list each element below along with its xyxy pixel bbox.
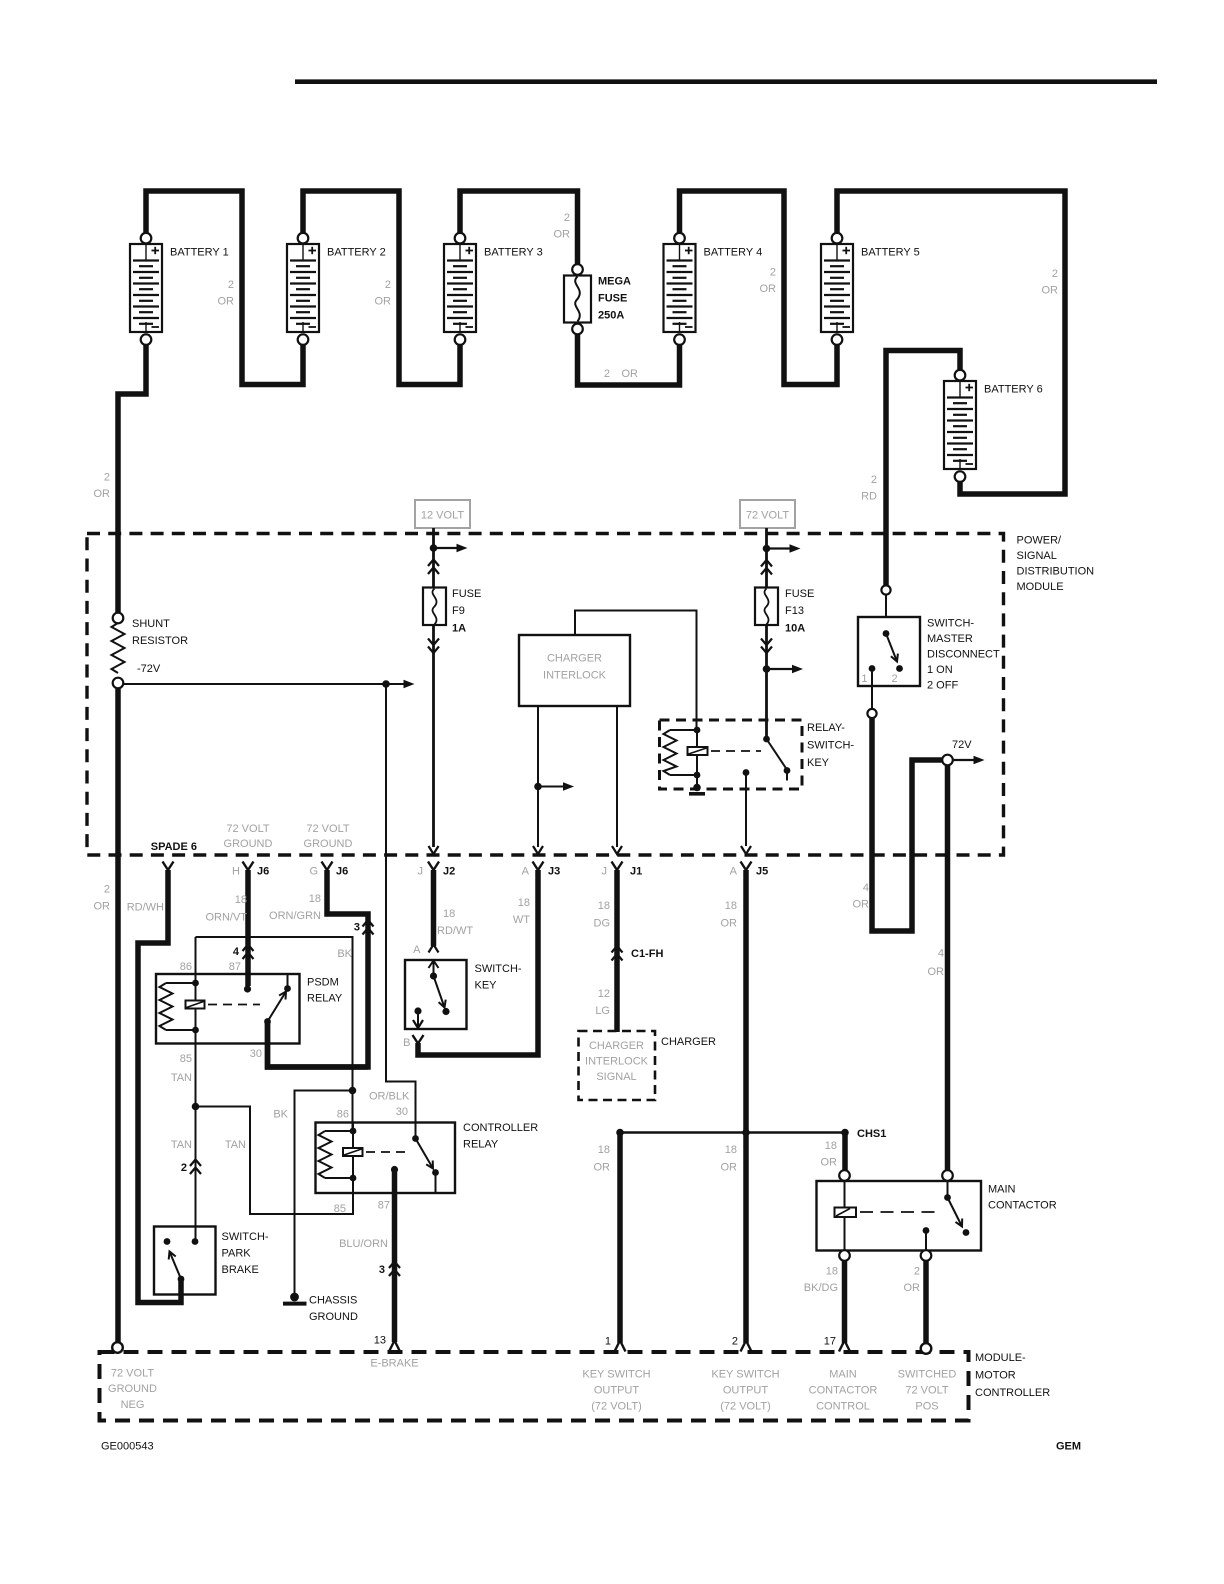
wire label 2 OR (72 volt ground neg)	[94, 884, 111, 913]
svg-text:2: 2	[1052, 268, 1058, 280]
svg-text:SWITCH-: SWITCH-	[927, 618, 974, 630]
svg-text:NEG: NEG	[121, 1399, 145, 1411]
wire shunt to controller relay 30	[386, 684, 416, 1136]
svg-text:18: 18	[725, 900, 737, 912]
svg-text:RELAY: RELAY	[307, 993, 343, 1005]
wire battery2 + to battery3 -	[303, 191, 460, 385]
svg-text:GROUND: GROUND	[309, 1311, 358, 1323]
junction dot 12 volt with arrow	[430, 544, 468, 553]
svg-text:TAN: TAN	[171, 1072, 192, 1084]
wire label 18 OR (output 1)	[594, 1144, 611, 1174]
wire label 2 OR (fuse-B4)	[604, 368, 638, 380]
svg-text:BLU/ORN: BLU/ORN	[339, 1238, 388, 1250]
relay-switch-key dashed box	[660, 720, 803, 789]
svg-text:86: 86	[337, 1109, 349, 1121]
svg-text:CHARGER: CHARGER	[547, 653, 602, 665]
wire switched 72 volt pos 2 OR	[923, 1261, 929, 1345]
svg-text:RD/WH: RD/WH	[127, 902, 164, 914]
charger interlock box	[519, 635, 630, 706]
wire charger interlock to connector J3	[537, 706, 539, 847]
svg-text:GROUND: GROUND	[224, 838, 273, 850]
wire PSDM relay 85 TAN	[195, 1044, 197, 1240]
svg-text:CHASSIS: CHASSIS	[309, 1295, 357, 1307]
figure number GE000543	[101, 1441, 154, 1453]
pin 72 volt ground neg	[108, 1342, 157, 1411]
svg-text:4: 4	[938, 948, 944, 960]
svg-text:OR: OR	[94, 488, 111, 500]
svg-text:ORN/GRN: ORN/GRN	[269, 910, 321, 922]
svg-text:85: 85	[180, 1053, 192, 1065]
svg-text:TAN: TAN	[171, 1139, 192, 1151]
svg-text:12 VOLT: 12 VOLT	[421, 510, 464, 522]
main contactor terminals	[839, 1170, 953, 1261]
svg-text:J: J	[418, 866, 424, 878]
switch-key input arrow	[429, 961, 439, 977]
main contactor output	[923, 1227, 930, 1251]
svg-text:POS: POS	[915, 1401, 938, 1413]
wire label 18 OR (output 2)	[721, 1144, 738, 1174]
PSDM relay switch contact (30 to 87)	[264, 974, 291, 1025]
svg-text:2: 2	[871, 474, 877, 486]
label CHARGER	[661, 1036, 716, 1048]
wire battery3 + to mega fuse	[460, 191, 578, 266]
junction dot key switch output 1	[616, 1129, 624, 1137]
svg-text:OR: OR	[375, 296, 392, 308]
svg-text:MASTER: MASTER	[927, 633, 973, 645]
svg-text:OR: OR	[821, 1157, 838, 1169]
relay-switch-key coil	[664, 727, 708, 788]
arrow into connector J1	[612, 846, 622, 854]
svg-text:MAIN: MAIN	[988, 1184, 1016, 1196]
wire label 2 RD (B6 to disconnect)	[861, 474, 877, 503]
relay-switch-key ground	[689, 784, 705, 794]
svg-text:F9: F9	[452, 605, 465, 617]
svg-text:B: B	[403, 1037, 410, 1049]
wire J6-H 18 ORN/VT to PSDM relay 87	[245, 870, 251, 986]
svg-text:30: 30	[250, 1048, 262, 1060]
svg-text:INTERLOCK: INTERLOCK	[585, 1056, 649, 1068]
wire key switch output junction row	[620, 1131, 845, 1134]
wire label BK (ORN/GRN splice)	[337, 948, 352, 960]
wire label 18 DG	[594, 900, 611, 930]
pin 13 e-brake	[370, 1335, 418, 1370]
chassis ground (switch-park brake area)	[293, 1296, 295, 1298]
svg-text:4: 4	[863, 882, 869, 894]
wire label 12 LG	[595, 988, 610, 1017]
svg-text:2: 2	[104, 472, 110, 484]
svg-text:2: 2	[892, 673, 898, 685]
splice 3 on BLU/ORN wire	[379, 1262, 400, 1277]
svg-text:18: 18	[443, 908, 455, 920]
wire disconnect pin1 to terminal	[867, 669, 876, 719]
svg-text:3: 3	[354, 922, 360, 934]
svg-text:E-BRAKE: E-BRAKE	[370, 1358, 418, 1370]
main contactor box	[817, 1181, 1057, 1251]
junction OR/BLK	[349, 1087, 410, 1103]
svg-text:LG: LG	[595, 1005, 610, 1017]
switch-key A chevron	[413, 944, 438, 956]
splice 3 on ORN/GRN wire	[354, 920, 374, 935]
svg-text:J6: J6	[257, 866, 269, 878]
svg-text:18: 18	[598, 1144, 610, 1156]
svg-text:SWITCHED: SWITCHED	[898, 1369, 957, 1381]
junction dot key switch output 2	[742, 1129, 750, 1137]
svg-text:MODULE-: MODULE-	[975, 1352, 1026, 1364]
arrow into connector J3	[533, 846, 543, 854]
svg-text:1: 1	[861, 673, 867, 685]
svg-text:17: 17	[824, 1336, 836, 1348]
svg-text:PSDM: PSDM	[307, 977, 339, 989]
svg-text:18: 18	[518, 897, 530, 909]
wire label 18 RD/WT	[437, 908, 473, 937]
wire label TAN TAN	[171, 1139, 246, 1151]
connector J3 pin A	[522, 862, 561, 878]
svg-text:1 ON: 1 ON	[927, 664, 953, 676]
svg-text:A: A	[413, 944, 421, 956]
svg-text:OUTPUT: OUTPUT	[723, 1385, 769, 1397]
wire label 18 BK/DG	[804, 1266, 838, 1295]
svg-text:J: J	[602, 866, 608, 878]
wire battery5 + to battery6 -	[837, 191, 1065, 494]
svg-text:BATTERY 3: BATTERY 3	[484, 247, 543, 259]
svg-text:CONTACTOR: CONTACTOR	[988, 1200, 1057, 1212]
svg-text:BATTERY 6: BATTERY 6	[984, 384, 1043, 396]
switch-park brake box	[154, 1227, 269, 1295]
PSDM relay pin 87 dot	[244, 985, 251, 992]
wire mega fuse to battery4 -	[578, 332, 680, 385]
fuse F13 10A	[755, 588, 814, 635]
splice chevrons below fuse F13	[761, 639, 772, 654]
junction dot 72 volt with arrow	[763, 544, 801, 553]
wire label 2 OR (B3-fuse)	[554, 212, 571, 241]
wire J5 18 OR to key switch output 2	[743, 870, 749, 1343]
connector SPADE 6	[151, 841, 197, 870]
svg-text:OR: OR	[594, 1162, 611, 1174]
pin switched 72 volt pos	[898, 1343, 957, 1412]
svg-text:F13: F13	[785, 605, 804, 617]
svg-text:RD: RD	[861, 491, 877, 503]
svg-text:OR/BLK: OR/BLK	[369, 1091, 410, 1103]
svg-text:3: 3	[379, 1264, 385, 1276]
controller relay mechanical link	[366, 1151, 409, 1153]
arrow into connector J2	[429, 846, 439, 854]
connector J6 pin H	[224, 823, 273, 878]
svg-text:GROUND: GROUND	[304, 838, 353, 850]
svg-text:OR: OR	[721, 918, 738, 930]
svg-text:18: 18	[309, 893, 321, 905]
node 12 VOLT	[415, 500, 470, 528]
svg-text:INTERLOCK: INTERLOCK	[543, 670, 607, 682]
main contactor switch contact	[944, 1181, 969, 1236]
module-motor controller dashed box	[100, 1352, 969, 1421]
fuse F9 1A	[423, 588, 481, 635]
wire label 4 OR (contactor feed)	[928, 948, 945, 979]
svg-text:SIGNAL: SIGNAL	[596, 1071, 636, 1083]
switch-key box	[405, 960, 522, 1029]
svg-text:OR: OR	[554, 229, 571, 241]
svg-text:SHUNT: SHUNT	[132, 618, 170, 630]
svg-text:KEY: KEY	[807, 757, 830, 769]
svg-text:OR: OR	[218, 296, 235, 308]
connector J2 pin J	[418, 862, 456, 878]
controller relay coil	[319, 1123, 363, 1194]
wire key switch output 1 (18 OR)	[617, 1133, 623, 1344]
svg-text:SWITCH-: SWITCH-	[222, 1231, 269, 1243]
svg-text:OR: OR	[1042, 285, 1059, 297]
svg-text:FUSE: FUSE	[598, 293, 627, 305]
PSDM relay BK loop to OR/BLK junction	[196, 937, 353, 1089]
svg-text:OR: OR	[721, 1162, 738, 1174]
svg-text:250A: 250A	[598, 310, 624, 322]
svg-text:MODULE: MODULE	[1017, 581, 1064, 593]
node CHS1	[841, 1128, 886, 1140]
svg-text:A: A	[730, 866, 738, 878]
wire charger interlock to connector J1	[616, 706, 618, 847]
svg-text:J5: J5	[756, 866, 768, 878]
wire label TAN (85)	[171, 1072, 192, 1084]
svg-text:WT: WT	[513, 914, 530, 926]
svg-text:J1: J1	[630, 866, 642, 878]
svg-text:72V: 72V	[952, 739, 972, 751]
power/signal distribution module dashed box	[87, 534, 1004, 856]
svg-text:J6: J6	[336, 866, 348, 878]
svg-text:OR: OR	[853, 899, 870, 911]
wire label 18 OR (J5)	[721, 900, 738, 930]
svg-text:2: 2	[732, 1336, 738, 1348]
svg-text:CONTROL: CONTROL	[816, 1401, 870, 1413]
splice 4 on ORN/VT wire	[233, 945, 254, 960]
svg-text:MOTOR: MOTOR	[975, 1370, 1016, 1382]
svg-text:CHARGER: CHARGER	[589, 1040, 644, 1052]
svg-text:BK: BK	[337, 948, 352, 960]
svg-text:72 VOLT: 72 VOLT	[306, 823, 349, 835]
svg-text:2: 2	[770, 267, 776, 279]
svg-text:BK: BK	[273, 1109, 288, 1121]
svg-text:86: 86	[180, 961, 192, 973]
splice C1-FH	[612, 946, 664, 961]
svg-text:4: 4	[233, 946, 240, 958]
controller relay box	[316, 1122, 539, 1193]
svg-text:-72V: -72V	[137, 663, 161, 675]
wire charger interlock to relay-switch-key coil	[575, 611, 697, 729]
svg-text:CHARGER: CHARGER	[661, 1036, 716, 1048]
label RELAY-SWITCH-KEY	[807, 722, 854, 769]
svg-text:1: 1	[605, 1336, 611, 1348]
PSDM relay mechanical link	[208, 1004, 260, 1006]
svg-text:2: 2	[104, 884, 110, 896]
svg-text:BATTERY 4: BATTERY 4	[704, 247, 763, 259]
connector J5 pin A	[730, 862, 769, 878]
node 72V	[942, 739, 984, 765]
svg-text:OR: OR	[904, 1282, 921, 1294]
wire J2 18 RD/WT to switch-key A	[431, 870, 437, 946]
wire TAN junction to controller relay 85	[196, 1107, 354, 1215]
svg-text:KEY: KEY	[475, 980, 498, 992]
svg-text:BK/DG: BK/DG	[804, 1282, 838, 1294]
svg-text:RELAY-: RELAY-	[807, 722, 845, 734]
svg-text:18: 18	[598, 900, 610, 912]
wire label 2 OR (B1 neg)	[94, 472, 111, 501]
svg-text:CONTROLLER: CONTROLLER	[463, 1122, 538, 1134]
battery B2	[287, 233, 386, 345]
splice chevrons above fuse F9	[428, 560, 439, 575]
charger interlock signal dashed box	[579, 1031, 656, 1100]
svg-text:RD/WT: RD/WT	[437, 925, 473, 937]
svg-text:SIGNAL: SIGNAL	[1017, 550, 1057, 562]
svg-text:OUTPUT: OUTPUT	[594, 1385, 640, 1397]
svg-text:KEY SWITCH: KEY SWITCH	[582, 1369, 650, 1381]
svg-text:85: 85	[334, 1203, 346, 1215]
svg-text:2: 2	[564, 212, 570, 224]
svg-text:30: 30	[396, 1106, 408, 1118]
label MODULE-MOTOR CONTROLLER	[975, 1352, 1050, 1399]
wire label 18 OR (CHS1)	[821, 1140, 838, 1169]
wire controller relay 87 BLU/ORN to e-brake	[392, 1170, 398, 1343]
mega fuse 250A	[564, 264, 631, 334]
svg-text:87: 87	[378, 1200, 390, 1212]
page top rule	[295, 79, 1157, 84]
svg-text:GE000543: GE000543	[101, 1441, 154, 1453]
wire J6-G 18 ORN/GRN to PSDM relay 30	[268, 870, 369, 1067]
svg-text:CONTACTOR: CONTACTOR	[809, 1385, 878, 1397]
label POWER/SIGNAL DISTRIBUTION MODULE	[1017, 535, 1095, 594]
svg-text:TAN: TAN	[225, 1139, 246, 1151]
wire main contactor control 18 BK/DG	[842, 1261, 848, 1344]
svg-text:2: 2	[228, 279, 234, 291]
svg-text:POWER/: POWER/	[1017, 535, 1063, 547]
svg-text:ORN/VT: ORN/VT	[205, 912, 247, 924]
wire battery1 - to shunt resistor (2 OR)	[118, 345, 146, 613]
wire label 2 OR (B1-B2)	[218, 279, 235, 308]
svg-text:BATTERY 2: BATTERY 2	[327, 247, 386, 259]
switch-master disconnect box	[858, 585, 1000, 691]
wire PSDM relay 30 thick link	[268, 1022, 369, 1068]
relay-switch-key mechanical link	[711, 750, 761, 752]
svg-text:72 VOLT: 72 VOLT	[111, 1368, 154, 1380]
shunt resistor -72V	[112, 613, 189, 689]
wire battery4 + to battery5 -	[680, 191, 838, 385]
connector J6 pin G	[304, 823, 353, 878]
wire SPADE6 RD/WH to park brake switch	[138, 870, 181, 1303]
controller relay pin 87 dot	[391, 1166, 398, 1173]
wire label 18 WT	[513, 897, 530, 926]
svg-text:DISCONNECT: DISCONNECT	[927, 649, 1000, 661]
label GEM	[1056, 1441, 1081, 1453]
svg-text:1A: 1A	[452, 623, 466, 635]
PSDM relay pin labels	[180, 961, 262, 1065]
svg-text:GROUND: GROUND	[108, 1383, 157, 1395]
wire label 2 OR (switched 72V)	[904, 1266, 921, 1295]
battery B4	[664, 233, 763, 345]
svg-text:FUSE: FUSE	[785, 588, 814, 600]
pin 1 key switch output	[582, 1336, 650, 1413]
node 72 VOLT	[740, 500, 795, 528]
svg-text:SPADE 6: SPADE 6	[151, 841, 197, 853]
wire label 2 OR (B2-B3)	[375, 279, 392, 308]
svg-text:18: 18	[825, 1140, 837, 1152]
svg-text:A: A	[522, 866, 530, 878]
wire J1 18 DG to charger interlock signal	[614, 870, 620, 1032]
svg-text:BRAKE: BRAKE	[222, 1264, 259, 1276]
svg-text:72 VOLT: 72 VOLT	[226, 823, 269, 835]
svg-text:OR: OR	[928, 966, 945, 978]
wire OR/BLK junction to controller relay 86	[352, 1091, 354, 1131]
svg-text:CONTROLLER: CONTROLLER	[975, 1387, 1050, 1399]
wire label 2 OR (B4-B5)	[760, 267, 777, 296]
svg-text:OR: OR	[760, 283, 777, 295]
svg-text:CHS1: CHS1	[857, 1128, 886, 1140]
svg-text:72 VOLT: 72 VOLT	[905, 1385, 948, 1397]
wire BK to chassis ground	[295, 1091, 353, 1294]
svg-text:BATTERY 1: BATTERY 1	[170, 247, 229, 259]
svg-text:(72 VOLT): (72 VOLT)	[720, 1401, 771, 1413]
wire label 2 OR (B5-B6)	[1042, 268, 1059, 297]
svg-text:H: H	[232, 866, 240, 878]
battery B5	[821, 233, 920, 345]
svg-text:2: 2	[181, 1162, 187, 1174]
svg-text:2: 2	[604, 368, 610, 380]
wire 12 volt to fuse F9	[432, 528, 435, 847]
svg-text:SWITCH-: SWITCH-	[475, 963, 522, 975]
svg-text:C1-FH: C1-FH	[631, 948, 663, 960]
main contactor coil	[835, 1181, 857, 1251]
junction dot TAN	[192, 1103, 200, 1111]
svg-text:J2: J2	[443, 866, 455, 878]
splice chevrons below fuse F9	[428, 639, 439, 654]
chassis ground (BK wire)	[283, 1293, 358, 1323]
svg-text:OR: OR	[94, 901, 111, 913]
svg-text:18: 18	[235, 894, 247, 906]
svg-text:18: 18	[725, 1144, 737, 1156]
svg-text:18: 18	[826, 1266, 838, 1278]
svg-text:13: 13	[374, 1335, 386, 1347]
switch-key B connector	[403, 1035, 423, 1049]
wire disconnect to 72V node (4 OR)	[872, 718, 942, 931]
junction dot with arrow (J3 branch)	[534, 782, 574, 791]
wire relay-switch-key to connector J5	[741, 769, 751, 854]
wire label 4 OR (disconnect)	[853, 882, 870, 911]
PSDM relay coil	[160, 980, 205, 1034]
relay-switch-key switch contact	[763, 736, 790, 781]
wire CHS1 to main contactor coil (18 OR)	[842, 1133, 848, 1172]
svg-text:2: 2	[914, 1266, 920, 1278]
pin 17 main contactor control	[809, 1336, 878, 1413]
svg-text:2 OFF: 2 OFF	[927, 680, 958, 692]
wire label BK	[273, 1109, 288, 1121]
svg-text:DG: DG	[594, 918, 611, 930]
svg-text:SWITCH-: SWITCH-	[807, 740, 854, 752]
connector J1 pin J	[602, 862, 643, 878]
splice 2 on TAN wire	[181, 1160, 201, 1175]
wire shunt junction with arrow	[123, 680, 415, 689]
battery B1	[130, 233, 229, 345]
svg-text:RESISTOR: RESISTOR	[132, 635, 188, 647]
svg-text:72 VOLT: 72 VOLT	[746, 510, 789, 522]
svg-text:MEGA: MEGA	[598, 276, 631, 288]
wire shunt resistor to 72 volt ground neg pin	[115, 687, 121, 1343]
svg-text:KEY SWITCH: KEY SWITCH	[711, 1369, 779, 1381]
battery B6	[944, 370, 1043, 482]
svg-text:87: 87	[229, 961, 241, 973]
pin 2 key switch output	[711, 1336, 779, 1413]
junction dot F13 with arrow	[763, 665, 803, 674]
svg-text:RELAY: RELAY	[463, 1139, 499, 1151]
svg-text:(72 VOLT): (72 VOLT)	[591, 1401, 642, 1413]
wire label 18 ORN/GRN	[269, 893, 321, 922]
wire battery6 + to switch-master disconnect (2 RD)	[886, 351, 960, 587]
svg-text:DISTRIBUTION: DISTRIBUTION	[1017, 566, 1095, 578]
PSDM relay box	[156, 974, 343, 1044]
